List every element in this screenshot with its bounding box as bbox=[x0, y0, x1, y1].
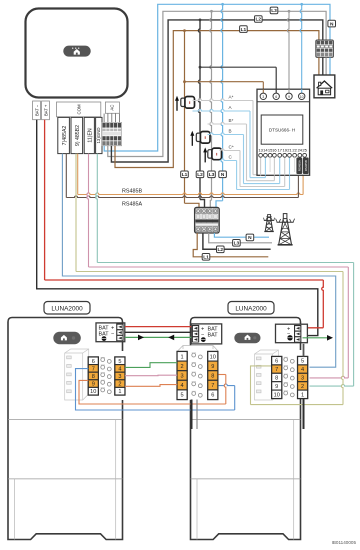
svg-text:N: N bbox=[248, 235, 252, 241]
label L2 lower bbox=[217, 246, 225, 253]
wires AC breaker to house bbox=[319, 57, 330, 75]
inverter logo pill bbox=[63, 46, 90, 57]
svg-text:2: 2 bbox=[181, 364, 184, 370]
battery 2 right BAT terminal box bbox=[276, 324, 308, 343]
battery 2 right COM terminal column 6-10 bbox=[272, 357, 282, 399]
wire BAT- cascade battery2 to battery1 (black) bbox=[125, 331, 191, 333]
battery 2 right COM terminal column 5-1 bbox=[298, 357, 308, 399]
battery cabinet LUNA2000 right bbox=[191, 318, 301, 540]
wire ground battery2 continuation (green) bbox=[303, 335, 334, 341]
wire comm battery1 to battery2 (orange) bbox=[125, 385, 177, 387]
svg-text:A*: A* bbox=[229, 95, 234, 100]
battery 2 right COM pins bbox=[284, 357, 294, 397]
wire AC L2 (black) inverter to top bus bbox=[111, 20, 322, 162]
svg-text:10: 10 bbox=[274, 392, 280, 398]
current transformer CT C on L3 bbox=[203, 147, 221, 162]
wire RS485A inverter to meter (dark) bbox=[66, 154, 298, 198]
COM pin label 11)EN bbox=[84, 117, 94, 153]
wire L1 phase drop (brown) through CT A to AC breaker bbox=[183, 29, 199, 207]
svg-text:10: 10 bbox=[300, 95, 304, 99]
svg-text:1: 1 bbox=[181, 354, 184, 360]
svg-text:RS485A: RS485A bbox=[122, 202, 142, 208]
label LUNA2000 left bbox=[44, 302, 90, 315]
svg-text:6: 6 bbox=[211, 393, 214, 399]
battery 1 COM pins bbox=[101, 357, 112, 393]
label RS485A bbox=[122, 202, 142, 208]
wire grid L2 (black) breaker to power grid bbox=[203, 233, 271, 249]
battery 2 left COM pins bbox=[192, 353, 203, 397]
svg-text:4: 4 bbox=[301, 367, 304, 373]
svg-text:AC: AC bbox=[109, 105, 114, 111]
meter internal wires bbox=[261, 89, 302, 175]
label L1 above grid breaker bbox=[181, 171, 189, 178]
label L3 above grid breaker bbox=[208, 171, 216, 178]
grid AC circuit breaker bbox=[195, 207, 220, 233]
battery 2 left COM terminal column 1-5 bbox=[177, 352, 187, 400]
wire meter voltage tap Ub (black) bbox=[199, 66, 277, 93]
power grid tower small bbox=[264, 215, 275, 232]
label A bbox=[229, 105, 233, 110]
label LUNA2000 right bbox=[228, 302, 274, 315]
meter bottom terminal row numbers bbox=[258, 147, 307, 152]
wire L2 phase drop (black) through CT B to AC breaker bbox=[198, 19, 204, 208]
connector area underlay battery 2 right bbox=[270, 350, 310, 399]
svg-text:BAT: BAT bbox=[208, 333, 219, 339]
wire EN (pink) inverter to battery 2 bbox=[87, 154, 348, 378]
battery 2 left BAT terminal box bbox=[191, 324, 222, 344]
meter top terminal 3 bbox=[260, 93, 266, 99]
ground cable battery 2 right upper bbox=[303, 344, 305, 357]
svg-text:7: 7 bbox=[211, 383, 214, 389]
terminal BAT- of inverter bbox=[33, 101, 41, 120]
svg-text:1: 1 bbox=[118, 389, 121, 395]
wire comm battery1 to battery2 (green) bbox=[125, 363, 177, 368]
svg-text:8: 8 bbox=[275, 376, 278, 382]
meter top terminal 6 bbox=[273, 93, 279, 99]
battery 1 BAT terminal box bbox=[96, 323, 125, 342]
label B bbox=[229, 129, 232, 134]
label B* bbox=[229, 118, 234, 123]
svg-text:LUNA2000: LUNA2000 bbox=[51, 305, 83, 312]
document number bbox=[332, 540, 357, 545]
label L3 lower bbox=[233, 240, 241, 247]
wire RS485A battery (blue) inverter to battery 2 bbox=[62, 154, 335, 368]
svg-text:5: 5 bbox=[181, 393, 184, 399]
svg-text:BAT: BAT bbox=[99, 325, 110, 331]
svg-text:9: 9 bbox=[275, 384, 278, 390]
svg-text:7)485A2: 7)485A2 bbox=[62, 126, 68, 146]
label C bbox=[229, 155, 233, 160]
svg-text:2: 2 bbox=[118, 382, 121, 388]
svg-text:L2: L2 bbox=[217, 247, 223, 253]
wire RS485B inverter to meter (orange) bbox=[78, 154, 303, 195]
battery indicator left bbox=[53, 332, 81, 344]
svg-text:6: 6 bbox=[92, 359, 95, 365]
svg-text:RS485A: RS485A bbox=[298, 160, 302, 171]
meter internal stubs terminals 15 and 22 bbox=[270, 157, 295, 172]
meter top terminal 9 bbox=[286, 93, 292, 99]
battery indicator right bbox=[234, 333, 260, 344]
label L2 above grid breaker bbox=[196, 171, 204, 178]
label N top right bbox=[328, 20, 336, 27]
svg-text:L1: L1 bbox=[241, 27, 247, 33]
AC terminal block pins bbox=[102, 114, 122, 146]
inverter SUN2000 enclosure bbox=[26, 9, 128, 98]
wire L3 phase drop (gray) through CT C to AC breaker bbox=[210, 10, 213, 208]
svg-text:11)EN: 11)EN bbox=[87, 128, 93, 143]
wire N drop (blue) to AC breaker bbox=[216, 3, 224, 208]
power grid tower large bbox=[276, 214, 295, 245]
label N above grid breaker bbox=[219, 171, 227, 178]
svg-text:9: 9 bbox=[211, 364, 214, 370]
meter bottom terminal screws bbox=[259, 153, 307, 157]
CT signal wire C to meter bbox=[220, 158, 290, 190]
svg-text:BAT −: BAT − bbox=[34, 104, 39, 116]
connector area underlay battery 2 left bbox=[175, 346, 221, 401]
svg-text:13)GND: 13)GND bbox=[96, 127, 101, 143]
svg-text:5: 5 bbox=[118, 359, 121, 365]
COM pin label 9)485B2 bbox=[71, 117, 83, 153]
wire GND (teal) inverter to battery 2 bbox=[96, 154, 354, 387]
connector area underlay battery 1 bbox=[86, 351, 127, 400]
battery 2 left COM terminal column 10-6 bbox=[208, 352, 218, 400]
svg-text:4: 4 bbox=[181, 383, 184, 389]
svg-text:DTSU666- H: DTSU666- H bbox=[269, 127, 295, 132]
svg-text:8: 8 bbox=[211, 374, 214, 380]
wire battery BAT+ (red) inverter to battery 2 bbox=[45, 120, 324, 328]
label L2 top bbox=[255, 16, 263, 23]
CT signal wire A to meter bbox=[193, 109, 266, 177]
svg-text:5: 5 bbox=[301, 359, 304, 365]
power meter DTSU666-H body bbox=[257, 89, 310, 175]
ground cable battery 2 left bbox=[192, 400, 198, 430]
meter RS485A port label bbox=[296, 158, 302, 175]
svg-text:10: 10 bbox=[210, 354, 216, 360]
AC breaker for house loads bbox=[316, 40, 334, 57]
svg-text:L3: L3 bbox=[209, 172, 215, 178]
svg-text:4: 4 bbox=[118, 366, 121, 372]
wire AC L1 (brown) inverter to top bus bbox=[115, 31, 319, 168]
wire meter voltage tap Uc (gray) bbox=[287, 10, 290, 93]
svg-text:3: 3 bbox=[181, 374, 184, 380]
wire ground cascade with connectors (green) bbox=[125, 335, 191, 341]
battery 1 COM terminal column 6-10 bbox=[88, 357, 98, 395]
svg-text:7: 7 bbox=[92, 366, 95, 372]
svg-text:3: 3 bbox=[262, 95, 264, 99]
wire meter voltage tap Ua (brown) bbox=[183, 80, 263, 93]
svg-text:6: 6 bbox=[275, 95, 277, 99]
svg-text:LUNA2000: LUNA2000 bbox=[235, 305, 267, 312]
label N lower bbox=[246, 234, 254, 241]
svg-text:B: B bbox=[229, 129, 232, 134]
wire meter voltage tap Un (blue) bbox=[300, 3, 303, 93]
COM pin label 7)485A2 bbox=[58, 117, 70, 153]
wire grid L3 (gray) breaker to power grid bbox=[209, 233, 272, 243]
house loads box bbox=[314, 75, 335, 98]
current transformer CT B on L2 bbox=[190, 131, 210, 146]
wire comm battery1 to battery2 (pink) bbox=[125, 374, 177, 377]
svg-text:9: 9 bbox=[92, 382, 95, 388]
wire BAT+ cascade battery2 to battery1 (red) bbox=[125, 326, 191, 328]
svg-text:RS485B: RS485B bbox=[304, 160, 308, 171]
CT signal wire C* to meter bbox=[220, 149, 285, 187]
label C* bbox=[229, 145, 234, 150]
CT signal wire A* to meter bbox=[193, 99, 261, 175]
svg-text:L1: L1 bbox=[182, 172, 188, 178]
svg-text:7: 7 bbox=[275, 367, 278, 373]
meter top terminal 10 bbox=[299, 93, 305, 99]
wire grid N (blue) breaker to power grid bbox=[214, 233, 269, 237]
battery 2 right COM connector housing bbox=[255, 350, 279, 400]
svg-text:BAT: BAT bbox=[208, 326, 219, 332]
svg-text:9) 485B2: 9) 485B2 bbox=[75, 125, 81, 146]
meter RS485B port label bbox=[303, 158, 309, 175]
battery cabinet LUNA2000 left bbox=[8, 318, 123, 540]
wire AC L3 (gray) inverter to top bus bbox=[108, 11, 326, 156]
svg-text:1: 1 bbox=[301, 392, 304, 398]
svg-text:B*: B* bbox=[229, 118, 234, 123]
svg-text:3: 3 bbox=[118, 374, 121, 380]
battery 1 COM terminal column 5-1 bbox=[115, 357, 125, 395]
svg-text:N: N bbox=[330, 21, 334, 27]
svg-text:BAT +: BAT + bbox=[43, 104, 48, 116]
wire grid L1 (brown) breaker to power grid bbox=[193, 233, 268, 257]
COM pin label 13)GND bbox=[96, 117, 102, 153]
label L1 lower bbox=[202, 254, 210, 261]
battery 2 left COM connector housing top bbox=[177, 346, 218, 352]
svg-text:COM: COM bbox=[77, 104, 82, 115]
svg-text:C*: C* bbox=[229, 145, 234, 150]
CT signal wire B to meter bbox=[208, 133, 280, 184]
battery 1 COM connector housing bbox=[65, 349, 89, 400]
svg-text:L1: L1 bbox=[203, 255, 209, 261]
wire comm loop blue battery1 bbox=[76, 369, 235, 410]
svg-text:9: 9 bbox=[288, 95, 290, 99]
svg-text:25: 25 bbox=[302, 147, 307, 152]
terminal BAT+ of inverter bbox=[42, 101, 50, 120]
ground cable battery 2 right bbox=[303, 399, 305, 430]
svg-text:L2: L2 bbox=[255, 17, 261, 23]
svg-text:N: N bbox=[221, 172, 225, 178]
CT signal wire B* to meter bbox=[208, 122, 275, 180]
svg-text:3: 3 bbox=[301, 376, 304, 382]
COM port box of inverter bbox=[57, 102, 101, 117]
svg-text:2: 2 bbox=[301, 384, 304, 390]
svg-text:−: − bbox=[111, 331, 114, 337]
svg-text:L2: L2 bbox=[197, 172, 203, 178]
meter display DTSU666-H bbox=[261, 115, 303, 144]
svg-text:RS485B: RS485B bbox=[122, 189, 142, 195]
wire comm loop orange battery1 bbox=[79, 375, 226, 405]
label A* bbox=[229, 95, 234, 100]
svg-text:L3: L3 bbox=[234, 241, 240, 247]
svg-text:10: 10 bbox=[90, 389, 96, 395]
svg-text:L3: L3 bbox=[271, 8, 277, 14]
wire AC N (blue) inverter to top bus bbox=[104, 4, 330, 151]
label RS485B bbox=[122, 189, 142, 195]
wire RS485B battery (olive) inverter to battery 2 bbox=[76, 154, 343, 405]
label L1 top bbox=[240, 26, 248, 33]
current transformer CT A on L1 bbox=[175, 96, 195, 111]
svg-text:6: 6 bbox=[275, 359, 278, 365]
svg-text:8: 8 bbox=[92, 374, 95, 380]
label L3 top bbox=[270, 7, 278, 14]
svg-text:IB01140005: IB01140005 bbox=[332, 540, 357, 545]
wire battery BAT- (black) inverter to battery 2 bbox=[37, 120, 318, 336]
AC port box of inverter bbox=[105, 102, 119, 113]
